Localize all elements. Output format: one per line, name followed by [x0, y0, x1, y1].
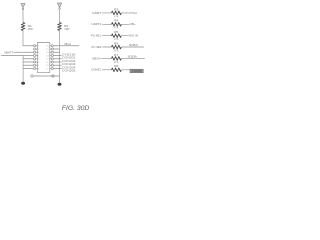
- resistor R2: [58, 23, 62, 31]
- wire: [53, 68, 61, 70]
- svg-text:8: 8: [38, 68, 39, 70]
- svg-text:VB+A: VB+A: [64, 43, 71, 46]
- svg-text:7: 7: [38, 65, 39, 67]
- pin 12 (right): [46, 58, 53, 61]
- svg-text:3: 3: [38, 52, 39, 54]
- svg-text:12: 12: [46, 59, 48, 61]
- wire: [59, 9, 61, 22]
- svg-text:16: 16: [46, 46, 48, 48]
- svg-text:47K: 47K: [114, 28, 119, 30]
- svg-text:47K: 47K: [114, 50, 119, 52]
- svg-text:CTX1A: CTX1A: [130, 12, 138, 15]
- svg-text:10: 10: [46, 65, 48, 67]
- pin 9 (right): [46, 67, 53, 70]
- power symbol VDD (right): [57, 3, 61, 9]
- svg-text:VDD: VDD: [28, 28, 33, 31]
- resistor R5: [112, 34, 122, 38]
- node COMM (boxed label row 6): [130, 69, 143, 73]
- svg-text:47K: 47K: [114, 62, 119, 64]
- svg-text:9: 9: [46, 68, 47, 70]
- wire: [53, 58, 61, 60]
- resistor R8: [112, 68, 122, 72]
- pin 13 (right): [46, 54, 53, 57]
- wire: [121, 12, 129, 14]
- svg-text:UB+: UB+: [130, 23, 137, 26]
- pin 11 (right): [46, 61, 53, 64]
- svg-text:2: 2: [38, 49, 39, 51]
- wire left edge to pin 4: [1, 55, 33, 57]
- svg-text:UART2: UART2: [92, 22, 102, 26]
- svg-text:5: 5: [38, 59, 39, 61]
- svg-text:1: 1: [38, 46, 39, 48]
- pin 5 (left): [34, 58, 40, 61]
- resistor R6: [112, 45, 122, 49]
- wire: [23, 58, 33, 60]
- resistor R7: [112, 57, 122, 61]
- svg-text:COMM: COMM: [132, 70, 142, 73]
- wire: [121, 23, 129, 25]
- wire: [121, 46, 143, 48]
- junction circle bottom-left: [31, 75, 33, 77]
- wire: [23, 64, 33, 66]
- svg-text:PU SE2: PU SE2: [92, 45, 102, 49]
- wire pin 14 to rail: [53, 51, 59, 53]
- ground terminal (left): [21, 82, 25, 85]
- ground terminal (right): [58, 83, 62, 86]
- pin 8 (left): [34, 67, 40, 70]
- pin 14 (right): [46, 51, 53, 54]
- wire: [102, 57, 112, 59]
- pin 1 (left): [34, 45, 40, 48]
- wire: [121, 35, 128, 37]
- svg-text:15: 15: [46, 49, 48, 51]
- svg-text:PU SE1: PU SE1: [91, 34, 101, 38]
- pin 4 (left): [34, 54, 40, 57]
- svg-text:13: 13: [46, 55, 48, 57]
- svg-text:47K: 47K: [114, 39, 119, 41]
- svg-text:FIG. 30D: FIG. 30D: [62, 105, 90, 112]
- wire ground drop vertical: [22, 56, 24, 82]
- svg-text:UART: UART: [92, 11, 102, 15]
- wire: [103, 23, 112, 25]
- wire: [53, 55, 61, 57]
- resistor R4: [112, 23, 122, 27]
- pin 10 (right): [46, 64, 53, 67]
- wire: [23, 61, 33, 63]
- junction circle bottom-mid: [52, 75, 54, 77]
- wire: [53, 64, 61, 66]
- wire: [103, 46, 112, 48]
- wire: [121, 69, 130, 71]
- wire: [102, 12, 111, 14]
- svg-text:11: 11: [46, 62, 48, 64]
- svg-text:SCBA: SCBA: [129, 44, 138, 47]
- svg-text:4: 4: [38, 55, 39, 57]
- wire VDD rail: [59, 31, 61, 83]
- wire VBATT+ to pin 3: [15, 51, 34, 53]
- pin 6 (left): [34, 61, 40, 64]
- svg-text:47K: 47K: [114, 16, 119, 18]
- wire to IC pin 1: [23, 31, 34, 46]
- wire: [102, 35, 111, 37]
- resistor R1: [21, 23, 25, 31]
- svg-text:VDD: VDD: [64, 28, 69, 31]
- pin 2 (left): [34, 48, 40, 51]
- IC U1: [37, 43, 49, 73]
- svg-text:SCB3A: SCB3A: [128, 55, 138, 58]
- wire pin 15 to rail: [53, 48, 59, 50]
- power symbol VDD (left): [21, 3, 25, 9]
- pin 15 (right): [46, 48, 53, 51]
- svg-text:14: 14: [46, 52, 48, 54]
- pin 3 (left): [34, 51, 40, 54]
- pin 16 (right): [46, 45, 53, 48]
- wire: [22, 10, 24, 23]
- svg-text:CON205: CON205: [62, 70, 76, 73]
- svg-text:EB IN: EB IN: [93, 56, 101, 60]
- svg-text:6: 6: [38, 62, 39, 64]
- wire: [53, 61, 61, 63]
- wire: [121, 57, 144, 59]
- wire VB net from pin 16: [53, 45, 79, 47]
- wire bottom row: [33, 75, 59, 77]
- wire: [23, 68, 33, 70]
- pin 7 (left): [34, 64, 40, 67]
- resistor R3: [112, 11, 122, 15]
- svg-text:VBATT+: VBATT+: [4, 50, 15, 54]
- svg-text:SIG IN: SIG IN: [129, 35, 138, 38]
- svg-text:COM21: COM21: [91, 68, 101, 72]
- wire: [102, 69, 111, 71]
